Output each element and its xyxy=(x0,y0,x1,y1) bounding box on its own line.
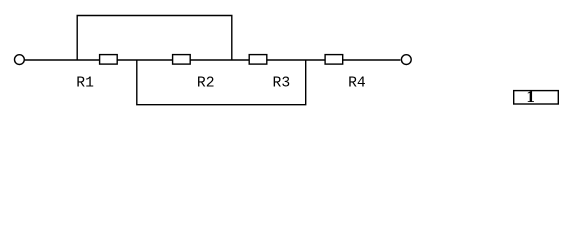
svg-text:R2: R2 xyxy=(197,76,215,92)
svg-text:R3: R3 xyxy=(273,76,291,92)
svg-text:R4: R4 xyxy=(348,76,366,92)
svg-text:1: 1 xyxy=(526,87,535,106)
svg-text:R1: R1 xyxy=(76,76,94,92)
